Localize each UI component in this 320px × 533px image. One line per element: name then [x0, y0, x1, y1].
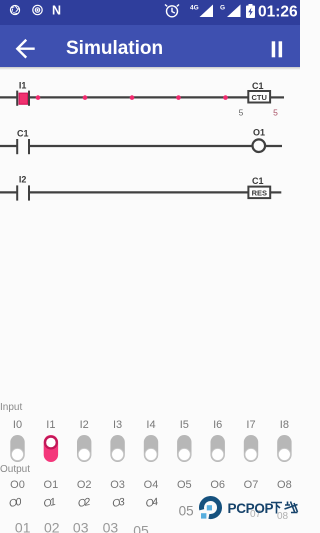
svg-text:02: 02 [44, 520, 60, 533]
output labels row [0, 476, 300, 491]
svg-text:O0: O0 [8, 496, 22, 510]
alarm clock icon [165, 5, 179, 17]
svg-text:O1: O1 [253, 128, 265, 138]
svg-text:4G: 4G [190, 5, 199, 12]
toggle I5 off [177, 435, 191, 462]
power-flow dot 2 [83, 95, 88, 100]
svg-text:O5: O5 [177, 479, 192, 491]
svg-text:O8: O8 [277, 479, 292, 491]
svg-text:5: 5 [273, 108, 278, 118]
svg-text:O4: O4 [144, 479, 159, 491]
svg-text:C1: C1 [252, 176, 264, 186]
svg-text:I6: I6 [213, 419, 222, 430]
svg-text:CTU: CTU [251, 93, 266, 102]
rung 2 wire right stub [265, 145, 282, 147]
bottom I/O panel [0, 402, 22, 413]
svg-text:O3: O3 [111, 496, 125, 510]
svg-text:I2: I2 [19, 175, 27, 185]
svg-text:RES: RES [252, 189, 267, 198]
rung 1 wire left [0, 96, 17, 98]
svg-text:PCPOP: PCPOP [228, 501, 274, 516]
svg-text:G: G [220, 5, 225, 12]
power-flow dot 5 [223, 95, 228, 100]
svg-text:I5: I5 [180, 419, 189, 430]
faint row behind watermark [250, 509, 261, 520]
output indicator glyph row [0, 495, 300, 511]
counter CTU box [248, 91, 270, 103]
svg-text:03: 03 [103, 520, 119, 533]
ladder diagram [0, 70, 300, 230]
battery icon [246, 4, 255, 18]
rung 3 wire left [0, 191, 17, 193]
svg-text:I1: I1 [19, 81, 27, 91]
power-flow dot 1 [36, 95, 41, 100]
svg-text:O2: O2 [77, 479, 92, 491]
status bar [0, 0, 300, 25]
back arrow [17, 41, 33, 57]
broadcast icon [33, 5, 42, 14]
toggle I4 off [144, 435, 158, 462]
power-flow dot 3 [130, 95, 135, 100]
output coil O1 [252, 139, 265, 152]
svg-text:5: 5 [239, 108, 244, 118]
svg-text:I7: I7 [246, 419, 255, 430]
rung 3 wire to RES [30, 191, 248, 193]
rung 1 wire to CTU [30, 96, 248, 98]
toggle I2 off [77, 435, 91, 462]
svg-text:I1: I1 [46, 419, 55, 430]
G signal wedge [227, 5, 241, 18]
4G signal wedge [200, 5, 214, 18]
contact I2 (open) [16, 185, 18, 200]
input labels row [0, 414, 300, 430]
svg-text:O3: O3 [110, 479, 125, 491]
rung 2 wire left [0, 145, 17, 147]
pause button [272, 41, 276, 57]
svg-text:I2: I2 [80, 419, 89, 430]
svg-text:O7: O7 [244, 479, 259, 491]
svg-text:01: 01 [15, 520, 31, 533]
bottom partial values row [0, 517, 300, 533]
reset RES box [248, 187, 270, 199]
rung 1 wire right stub [270, 96, 284, 98]
toggle I7 off [244, 435, 258, 462]
aperture icon [10, 5, 19, 14]
PCPOP watermark [195, 492, 300, 524]
svg-text:03: 03 [73, 520, 89, 533]
svg-text:O1: O1 [44, 479, 59, 491]
svg-text:01:26: 01:26 [258, 4, 298, 21]
svg-text:O4: O4 [145, 496, 159, 510]
toggle I6 off [211, 435, 225, 462]
svg-text:05: 05 [133, 523, 149, 533]
svg-text:N: N [52, 4, 61, 18]
svg-text:05: 05 [179, 504, 194, 519]
svg-text:O0: O0 [10, 479, 25, 491]
svg-text:I8: I8 [280, 419, 289, 430]
power-flow dot 4 [176, 95, 181, 100]
rung 3 wire right stub [270, 191, 281, 193]
svg-text:O2: O2 [77, 496, 91, 510]
toggle I3 off [110, 435, 124, 462]
svg-text:I0: I0 [13, 419, 22, 430]
watermark text 下载 (drawn) [271, 502, 298, 514]
svg-text:I3: I3 [113, 419, 122, 430]
svg-text:C1: C1 [252, 81, 264, 91]
app bar [0, 25, 300, 67]
contact C1 (open) [16, 139, 18, 154]
toggle I1 on [44, 435, 58, 462]
input toggle switches [0, 434, 300, 464]
watermark logo [201, 499, 220, 519]
svg-text:Simulation: Simulation [66, 38, 163, 59]
rung 2 wire to coil [30, 145, 252, 147]
svg-text:O6: O6 [210, 479, 225, 491]
toggle I8 off [277, 435, 291, 462]
svg-text:I4: I4 [146, 419, 155, 430]
toggle I0 off [10, 435, 24, 462]
svg-text:C1: C1 [17, 129, 29, 139]
contact I1 (closed, energized) [19, 93, 28, 104]
svg-text:O1: O1 [43, 496, 56, 510]
counter value 05 [165, 500, 209, 518]
